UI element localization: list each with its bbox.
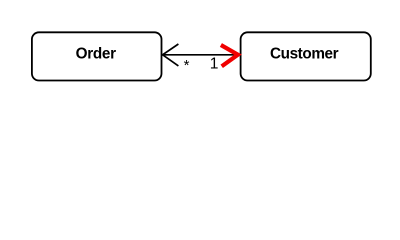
red arrowhead at Customer end — [221, 45, 238, 66]
association wire — [163, 54, 241, 56]
svg-text:Customer: Customer — [270, 45, 339, 62]
svg-text:*: * — [184, 57, 190, 74]
class box Order — [32, 32, 162, 80]
svg-text:Order: Order — [76, 45, 117, 62]
class box Customer — [241, 32, 371, 80]
svg-text:1: 1 — [210, 56, 219, 73]
open arrowhead at Order end — [163, 44, 179, 66]
